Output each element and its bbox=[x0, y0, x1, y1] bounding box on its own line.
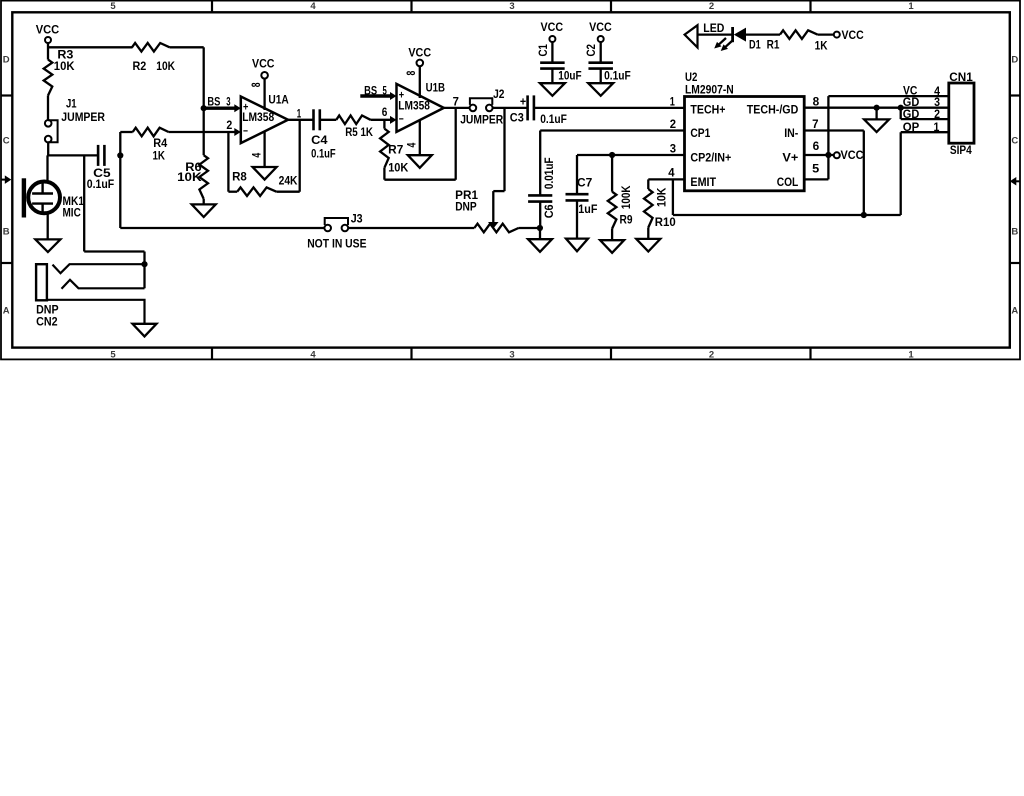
ground (C2) bbox=[588, 69, 613, 96]
wire bbox=[46, 155, 48, 182]
wire bbox=[119, 132, 121, 228]
svg-text:VCC: VCC bbox=[36, 24, 60, 36]
svg-text:1: 1 bbox=[670, 96, 676, 108]
svg-text:VC: VC bbox=[903, 86, 917, 98]
svg-text:D: D bbox=[3, 55, 10, 66]
svg-text:B: B bbox=[1011, 227, 1018, 238]
off-page arrow left bbox=[1, 175, 11, 184]
svg-text:J2: J2 bbox=[493, 89, 504, 101]
wire (wiper) bbox=[493, 108, 504, 222]
ground (C7) bbox=[566, 239, 588, 252]
ground (R9) bbox=[600, 229, 624, 253]
wire bbox=[698, 33, 733, 35]
svg-text:4: 4 bbox=[406, 142, 418, 147]
svg-text:DNP: DNP bbox=[455, 201, 477, 213]
ground (U1B) bbox=[406, 120, 431, 168]
node C6/PR1 bbox=[537, 225, 543, 231]
svg-text:COL: COL bbox=[777, 177, 799, 189]
svg-text:10K: 10K bbox=[156, 61, 175, 73]
svg-text:10K: 10K bbox=[388, 162, 409, 174]
svg-text:TECH-/GD: TECH-/GD bbox=[747, 105, 799, 117]
IC U2 LM2907-N bbox=[685, 72, 805, 191]
capacitor C3 bbox=[510, 95, 567, 126]
svg-text:GD: GD bbox=[903, 109, 920, 121]
svg-text:GD: GD bbox=[903, 97, 920, 109]
power VCC (C1) bbox=[541, 22, 564, 42]
svg-text:JUMPER: JUMPER bbox=[61, 112, 105, 124]
resistor R7 feedback bbox=[380, 108, 456, 180]
connector CN1 bbox=[949, 72, 974, 157]
pin label GD 2 bbox=[903, 109, 940, 121]
wire BS to U1A+ bbox=[204, 104, 241, 112]
svg-text:10K: 10K bbox=[177, 172, 202, 184]
svg-text:−: − bbox=[243, 126, 248, 138]
svg-text:2: 2 bbox=[226, 120, 232, 132]
svg-text:IN-: IN- bbox=[784, 128, 798, 140]
wire R4 to U1A- bbox=[169, 128, 241, 136]
ground (C1) bbox=[540, 69, 565, 96]
wire pin2 row bbox=[540, 131, 684, 196]
resistor R2 bbox=[132, 43, 176, 73]
resistor R4 bbox=[133, 128, 169, 163]
power VCC (U1B) bbox=[406, 47, 431, 98]
wire bbox=[47, 142, 98, 155]
svg-text:VCC: VCC bbox=[841, 150, 864, 162]
capacitor C1 bbox=[538, 42, 582, 82]
resistor R9 bbox=[608, 155, 633, 229]
node mic/J1/C5 row branch bbox=[84, 155, 144, 264]
svg-text:3: 3 bbox=[670, 144, 676, 156]
resistor R3 bbox=[44, 50, 75, 96]
svg-text:LM2907-N: LM2907-N bbox=[685, 85, 734, 97]
svg-text:CN1: CN1 bbox=[949, 72, 973, 84]
svg-text:EMIT: EMIT bbox=[690, 177, 716, 189]
wire bbox=[493, 107, 528, 109]
svg-text:LM358: LM358 bbox=[242, 112, 275, 124]
svg-text:4: 4 bbox=[310, 350, 316, 361]
ground (U1A) bbox=[251, 132, 276, 180]
border frame bbox=[1, 1, 1020, 361]
svg-text:R2: R2 bbox=[133, 61, 147, 73]
pin label 1 bbox=[297, 109, 302, 121]
net label BS 3 bbox=[207, 96, 230, 108]
svg-text:10uF: 10uF bbox=[558, 70, 581, 82]
wire bbox=[519, 227, 540, 229]
svg-text:VCC: VCC bbox=[541, 22, 564, 34]
node GND tie bbox=[874, 105, 880, 111]
svg-text:R5 1K: R5 1K bbox=[345, 127, 373, 139]
svg-text:V+: V+ bbox=[782, 153, 798, 165]
svg-text:NOT IN USE: NOT IN USE bbox=[307, 238, 367, 250]
pin label 5 bbox=[812, 163, 820, 175]
svg-text:LED: LED bbox=[703, 23, 724, 35]
net label BS 5 bbox=[364, 85, 387, 97]
wire pin3 row bbox=[577, 155, 685, 194]
wire U1B out bbox=[444, 107, 470, 109]
svg-text:LM358: LM358 bbox=[398, 100, 430, 112]
wire bbox=[348, 227, 474, 229]
wire VC row bbox=[828, 95, 948, 97]
jumper J1 bbox=[45, 99, 106, 143]
wire bbox=[746, 33, 780, 35]
wire bottom row bbox=[120, 227, 324, 229]
svg-text:R9: R9 bbox=[620, 214, 633, 226]
power VCC (R3 top) bbox=[36, 24, 60, 43]
capacitor C7 bbox=[566, 177, 598, 216]
svg-text:B: B bbox=[3, 227, 10, 238]
svg-text:6: 6 bbox=[382, 107, 388, 119]
pin names left bbox=[690, 105, 731, 190]
pin label 7 bbox=[812, 119, 818, 131]
svg-text:D: D bbox=[1011, 55, 1018, 66]
svg-text:4: 4 bbox=[251, 152, 263, 157]
svg-text:U2: U2 bbox=[685, 72, 697, 84]
node after C5 bbox=[117, 152, 123, 158]
resistor R10 bbox=[644, 179, 676, 229]
svg-text:0.1uF: 0.1uF bbox=[604, 70, 631, 82]
trimmer PR1 bbox=[455, 190, 518, 232]
wire R5 to U1B- bbox=[371, 116, 397, 124]
resistor R8 feedback bbox=[228, 120, 299, 196]
svg-text:3: 3 bbox=[934, 97, 940, 109]
svg-text:10K: 10K bbox=[656, 187, 668, 207]
svg-text:2: 2 bbox=[934, 109, 940, 121]
ground (CN2) bbox=[133, 324, 157, 337]
svg-text:8: 8 bbox=[406, 70, 418, 75]
ground (R10) bbox=[636, 228, 660, 252]
node CN2 tip bbox=[141, 261, 147, 267]
ground (TECH-/GD) bbox=[864, 108, 889, 132]
pin label 3 bbox=[670, 144, 676, 156]
pin label 1 bbox=[670, 96, 676, 108]
node GD2 tie bbox=[898, 105, 904, 111]
svg-text:0.1uF: 0.1uF bbox=[540, 114, 567, 126]
svg-text:1uF: 1uF bbox=[578, 204, 597, 216]
svg-text:VCC: VCC bbox=[408, 47, 431, 59]
svg-text:4: 4 bbox=[668, 167, 675, 179]
pin label 2 bbox=[670, 119, 676, 131]
svg-text:0.1uF: 0.1uF bbox=[87, 179, 114, 191]
wire V+/COL trunk bbox=[804, 96, 828, 179]
svg-text:1K: 1K bbox=[815, 41, 829, 53]
svg-text:8: 8 bbox=[251, 82, 263, 87]
pin label 8 bbox=[813, 97, 820, 109]
pin label VC 4 bbox=[903, 86, 941, 98]
svg-text:C4: C4 bbox=[311, 135, 328, 147]
svg-text:C1: C1 bbox=[538, 43, 550, 56]
svg-text:3: 3 bbox=[509, 350, 514, 361]
wire bbox=[576, 200, 578, 238]
wire bbox=[120, 131, 132, 133]
wire bbox=[539, 202, 541, 228]
power VCC (C2) bbox=[589, 22, 612, 42]
svg-text:R4: R4 bbox=[153, 138, 168, 150]
svg-text:1: 1 bbox=[908, 350, 914, 361]
svg-text:24K: 24K bbox=[279, 175, 299, 187]
svg-text:C: C bbox=[3, 136, 10, 147]
pin label 2 bbox=[226, 120, 232, 132]
wire bbox=[47, 96, 49, 121]
svg-text:TECH+: TECH+ bbox=[690, 105, 725, 117]
node R9 top bbox=[609, 152, 615, 158]
pin label 4 bbox=[668, 167, 675, 179]
svg-text:C6: C6 bbox=[544, 204, 556, 218]
wire pin4 drop bbox=[673, 179, 901, 215]
svg-text:D1: D1 bbox=[749, 39, 761, 51]
off-page port LED bbox=[685, 23, 725, 48]
node V+ VCC bbox=[825, 152, 831, 158]
wire IN- (pin7) bbox=[804, 131, 864, 216]
op-amp U1B bbox=[397, 83, 446, 132]
resistor R6 bbox=[177, 155, 208, 199]
wire bbox=[170, 47, 204, 108]
svg-text:6: 6 bbox=[813, 141, 820, 153]
wire GD2 row bbox=[901, 108, 949, 119]
svg-text:2: 2 bbox=[709, 1, 714, 12]
svg-text:−: − bbox=[399, 114, 404, 126]
microphone MK1 bbox=[22, 178, 85, 219]
svg-text:5: 5 bbox=[110, 1, 116, 12]
wire BS to U1B+ bbox=[360, 92, 396, 100]
pin names right bbox=[747, 105, 799, 190]
pin label 6 bbox=[813, 141, 820, 153]
svg-text:CP1: CP1 bbox=[690, 128, 710, 140]
svg-text:CP2/IN+: CP2/IN+ bbox=[690, 153, 731, 165]
jumper J2 bbox=[460, 89, 504, 126]
svg-text:R3: R3 bbox=[57, 50, 73, 62]
pin label 6 bbox=[382, 107, 388, 119]
svg-text:MIC: MIC bbox=[63, 208, 81, 220]
wire bbox=[818, 33, 834, 35]
svg-text:7: 7 bbox=[812, 119, 818, 131]
svg-text:A: A bbox=[3, 306, 10, 317]
connector CN2 (jack) bbox=[36, 264, 144, 328]
svg-text:SIP4: SIP4 bbox=[950, 145, 972, 157]
wire pin8 row bbox=[804, 107, 949, 109]
svg-text:VCC: VCC bbox=[589, 22, 612, 34]
op-amp U1A bbox=[241, 95, 289, 144]
diode D1 (LED) bbox=[714, 27, 761, 51]
svg-text:VCC: VCC bbox=[252, 59, 275, 71]
wire bbox=[320, 119, 337, 121]
svg-text:VCC: VCC bbox=[842, 30, 864, 42]
wire main row bbox=[534, 107, 685, 109]
svg-text:R1: R1 bbox=[767, 39, 780, 51]
resistor R1 bbox=[767, 30, 829, 52]
svg-text:+: + bbox=[520, 95, 526, 109]
svg-text:C3: C3 bbox=[510, 113, 524, 125]
svg-text:J1: J1 bbox=[66, 99, 77, 111]
ground (C6) bbox=[528, 228, 552, 252]
svg-text:3: 3 bbox=[509, 1, 514, 12]
svg-text:4: 4 bbox=[310, 1, 316, 12]
svg-text:5: 5 bbox=[812, 163, 820, 175]
pin label 7 bbox=[453, 97, 459, 109]
svg-text:1K: 1K bbox=[153, 150, 166, 162]
pin label OP 1 bbox=[903, 122, 940, 134]
wire bbox=[203, 108, 205, 155]
svg-text:0.01uF: 0.01uF bbox=[544, 157, 556, 189]
wire OP row bbox=[901, 132, 949, 215]
svg-text:JUMPER: JUMPER bbox=[460, 114, 504, 126]
svg-text:J3: J3 bbox=[351, 213, 363, 225]
capacitor C6 bbox=[528, 157, 556, 218]
wire bbox=[48, 46, 133, 48]
svg-text:U1A: U1A bbox=[268, 95, 288, 107]
svg-text:4: 4 bbox=[934, 86, 940, 98]
capacitor C5 bbox=[87, 145, 114, 191]
capacitor C2 bbox=[586, 42, 631, 82]
svg-text:OP: OP bbox=[903, 122, 920, 134]
wire bbox=[47, 213, 49, 240]
svg-text:A: A bbox=[1011, 306, 1018, 317]
jumper J3 bbox=[307, 213, 367, 250]
svg-text:R8: R8 bbox=[232, 172, 247, 184]
capacitor C4 bbox=[311, 109, 336, 160]
power VCC (U1A) bbox=[251, 59, 275, 110]
ground (mic) bbox=[35, 239, 60, 252]
svg-text:0.1uF: 0.1uF bbox=[311, 149, 336, 161]
svg-text:5: 5 bbox=[110, 350, 116, 361]
svg-text:R10: R10 bbox=[655, 217, 676, 229]
svg-text:C: C bbox=[1011, 136, 1018, 147]
svg-text:10K: 10K bbox=[54, 61, 75, 73]
svg-text:DNP: DNP bbox=[36, 305, 59, 317]
svg-text:2: 2 bbox=[670, 119, 676, 131]
wire U1A out bbox=[288, 119, 314, 121]
svg-text:C7: C7 bbox=[577, 177, 592, 189]
svg-text:2: 2 bbox=[709, 350, 714, 361]
node BS bbox=[201, 105, 207, 111]
svg-text:C2: C2 bbox=[586, 44, 598, 57]
wire bbox=[47, 43, 49, 60]
svg-text:100K: 100K bbox=[621, 185, 633, 209]
off-page arrow right bbox=[1010, 177, 1020, 186]
power VCC (R1) bbox=[834, 30, 864, 42]
svg-text:PR1: PR1 bbox=[455, 190, 478, 202]
node EMIT/IN- bbox=[861, 212, 867, 218]
svg-text:CN2: CN2 bbox=[36, 316, 58, 328]
power VCC (V+) bbox=[828, 150, 863, 162]
svg-text:R7: R7 bbox=[388, 145, 403, 157]
svg-text:1: 1 bbox=[934, 122, 940, 134]
ground (R6) bbox=[192, 199, 216, 217]
wire pin4 row bbox=[648, 178, 684, 180]
svg-text:U1B: U1B bbox=[426, 83, 445, 95]
svg-text:1: 1 bbox=[908, 1, 914, 12]
pin label GD 3 bbox=[903, 97, 940, 109]
svg-text:MK1: MK1 bbox=[63, 196, 85, 208]
resistor R5 bbox=[336, 116, 373, 139]
